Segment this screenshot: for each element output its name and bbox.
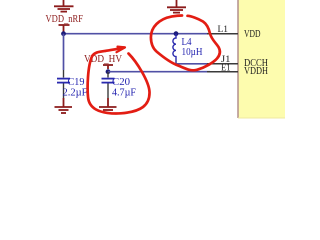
junction node C (VDD_HV): [106, 69, 111, 74]
svg-text:L1: L1: [218, 25, 229, 35]
wire: VDD_nRF node to pin L1 (horizontal): [64, 33, 211, 35]
pin E1 (line): [207, 71, 238, 73]
pin/wire: inductor bottom to pin J1: [176, 60, 210, 64]
svg-text:10µH: 10µH: [182, 47, 203, 58]
wire: node A down to C19: [63, 34, 65, 70]
ground symbol (below C20): [99, 98, 117, 113]
wire: node C to pin E1 (horizontal): [108, 71, 210, 73]
annotation: arrowhead at VDD_HV: [117, 47, 126, 53]
pin J1 (line): [207, 63, 238, 65]
junction node B (inductor top): [174, 31, 179, 36]
annotation: red loop around C20/VDD_HV with arrow: [88, 48, 150, 114]
ground symbol (below C19): [55, 98, 73, 113]
svg-text:2.2µF: 2.2µF: [63, 87, 88, 98]
svg-text:4.7µF: 4.7µF: [112, 87, 136, 98]
capacitor C20: [102, 72, 115, 98]
pin L1 (line): [207, 33, 238, 35]
ground symbol (top left column, cropped): [54, 0, 74, 12]
svg-text:E1: E1: [221, 63, 231, 73]
svg-text:VDD_nRF: VDD_nRF: [46, 14, 84, 25]
power port VDD_HV (bar style): [103, 65, 113, 69]
ground symbol (top middle column, cropped): [167, 0, 186, 13]
power port VDD_nRF (bar style): [59, 25, 70, 32]
capacitor C19: [57, 70, 70, 98]
inductor L4 (vertical, arcs bulge left): [173, 34, 176, 60]
annotation: red circle around inductor L4: [151, 16, 220, 71]
svg-text:VDDH: VDDH: [244, 66, 268, 77]
svg-text:C20: C20: [112, 77, 130, 88]
svg-text:C19: C19: [68, 77, 85, 88]
IC body U1 (yellow box, right side): [238, 0, 285, 119]
junction node A (VDD_nRF): [61, 31, 66, 36]
svg-text:VDD: VDD: [244, 29, 261, 40]
